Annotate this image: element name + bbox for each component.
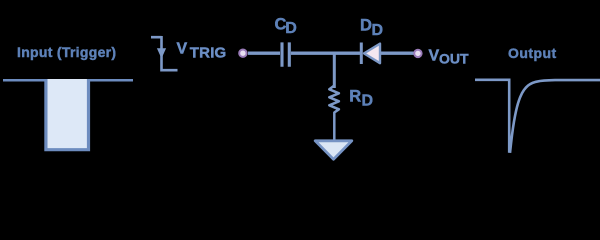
svg-text:R: R: [349, 88, 361, 106]
svg-text:D: D: [285, 20, 297, 37]
svg-text:V: V: [177, 41, 188, 58]
svg-text:D: D: [372, 22, 384, 39]
svg-text:Input (Trigger): Input (Trigger): [17, 44, 116, 60]
svg-text:V: V: [429, 47, 440, 64]
svg-text:TRIG: TRIG: [190, 45, 227, 62]
svg-text:D: D: [360, 17, 372, 35]
svg-text:D: D: [362, 92, 374, 109]
svg-text:Output: Output: [508, 45, 557, 61]
svg-text:OUT: OUT: [439, 51, 469, 67]
